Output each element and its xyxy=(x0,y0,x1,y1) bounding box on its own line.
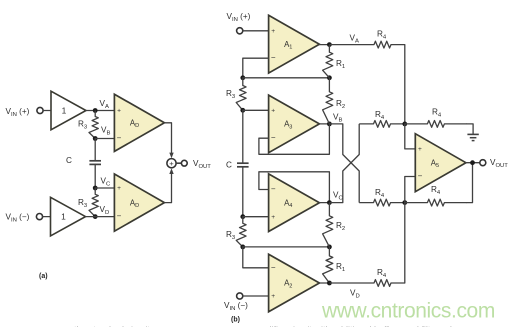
wire crossover upper-right to VC xyxy=(329,124,359,203)
node VC (b) xyxy=(327,200,332,205)
resistor R4 (VD row) xyxy=(329,280,404,287)
wire buffer2 to node VD xyxy=(86,216,96,218)
capacitor C (a) xyxy=(89,160,101,162)
svg-text:−: − xyxy=(117,212,122,221)
resistor R1 (b top) xyxy=(323,45,333,78)
op-amp A3 xyxy=(269,95,320,153)
svg-text:VIN (−): VIN (−) xyxy=(224,301,248,312)
svg-text:C: C xyxy=(66,156,72,165)
wire A1 feedback xyxy=(243,58,269,78)
svg-text:+: + xyxy=(271,108,275,115)
svg-text:R1: R1 xyxy=(336,262,345,273)
op-amp A4 xyxy=(269,174,320,232)
input terminal VIN(-) (b) xyxy=(237,293,243,299)
svg-text:R3: R3 xyxy=(226,230,236,241)
wire A3 feedback loop xyxy=(259,124,330,154)
svg-text:VD: VD xyxy=(350,289,360,300)
svg-text:VC: VC xyxy=(101,177,111,188)
svg-text:www.cntronics.com: www.cntronics.com xyxy=(321,299,495,322)
resistor R3 (b bottom) xyxy=(236,217,246,247)
resistor R2 (b bottom) xyxy=(323,203,333,247)
svg-text:+: + xyxy=(169,159,174,168)
wire VIN(+) to A1 xyxy=(243,30,269,32)
node mid-left (b) xyxy=(240,245,245,250)
wire VC to amp plus xyxy=(95,187,114,189)
op-amp AD top (a) xyxy=(114,94,164,151)
wire capacitor to VC xyxy=(94,164,96,188)
op-amp AD bottom (a) xyxy=(114,174,164,231)
capacitor C (b) xyxy=(237,162,249,164)
svg-text:R4: R4 xyxy=(431,185,441,196)
resistor R4 (A5 plus row) xyxy=(359,121,405,128)
wire AD bottom output to summer xyxy=(164,174,171,203)
resistor R4 (A5 minus row) xyxy=(359,199,405,206)
wire to A3 plus xyxy=(243,109,269,111)
svg-text:−: − xyxy=(117,134,122,143)
buffer U2 gain 1 xyxy=(51,197,86,236)
wire capacitor to A4 plus node xyxy=(242,167,244,217)
svg-text:R2: R2 xyxy=(336,221,345,232)
ground symbol xyxy=(467,133,478,135)
wire A4 output to node VC xyxy=(319,202,329,204)
svg-text:VIN (+): VIN (+) xyxy=(6,107,30,118)
wire VIN(-) to buffer xyxy=(43,216,51,218)
output terminal VOUT (b) xyxy=(480,160,486,166)
wire to ground xyxy=(467,124,473,134)
wire VB to amp minus xyxy=(95,138,114,140)
node VA (b) xyxy=(327,42,332,47)
svg-text:+: + xyxy=(117,108,121,115)
svg-text:(a): (a) xyxy=(39,273,48,280)
svg-text:−: − xyxy=(418,172,423,181)
wire AD top output to summer xyxy=(164,123,171,153)
input terminal VIN(+) (b) xyxy=(237,28,243,34)
svg-text:VB: VB xyxy=(101,126,110,137)
svg-text:+: + xyxy=(271,28,275,35)
wire VD to amp xyxy=(95,216,114,218)
svg-text:R2: R2 xyxy=(336,99,345,110)
svg-text:−: − xyxy=(271,53,276,62)
wire right bus bottom xyxy=(404,203,406,283)
node A3 plus (b) xyxy=(240,108,245,113)
svg-text:R3: R3 xyxy=(78,120,88,131)
node A4 plus (b) xyxy=(240,214,245,219)
node VD (b) xyxy=(327,281,332,286)
wire feedback row A1 xyxy=(243,77,330,79)
node A1 feedback left xyxy=(240,75,245,80)
wire middle row (b) xyxy=(243,246,330,248)
resistor R2 (b top) xyxy=(323,78,333,124)
wire buffer to node VA xyxy=(86,110,114,112)
svg-text:+: + xyxy=(271,293,275,300)
node VA (a) xyxy=(93,108,98,113)
wire VIN(-) to A2 xyxy=(243,295,269,297)
wire VIN(+) to buffer xyxy=(43,110,51,112)
svg-text:VOUT: VOUT xyxy=(490,158,508,169)
node mid-right (b) xyxy=(327,245,332,250)
svg-text:+: + xyxy=(418,146,422,153)
wire to A4 plus xyxy=(243,216,269,218)
svg-text:R3: R3 xyxy=(78,198,88,209)
svg-text:−: − xyxy=(271,263,276,272)
circuit (a) input terminal VIN(+) xyxy=(37,107,43,113)
svg-text:R4: R4 xyxy=(432,108,442,119)
wire A2 feedback loop xyxy=(243,247,269,268)
resistor R4 (A5 feedback) xyxy=(405,199,467,206)
resistor R3 (a bottom) xyxy=(89,188,98,217)
wire left bus to capacitor (b) xyxy=(242,110,244,163)
svg-text:R1: R1 xyxy=(336,59,345,70)
node VB (a) xyxy=(93,136,98,141)
input terminal VIN(-) (a) xyxy=(36,214,42,220)
svg-text:VB: VB xyxy=(333,113,342,124)
svg-text:C: C xyxy=(226,161,232,170)
op-amp A1 xyxy=(269,15,320,73)
node A5 output xyxy=(470,160,475,165)
svg-text:+: + xyxy=(117,185,121,192)
wire A2 output to node VD xyxy=(319,282,329,284)
svg-text:R3: R3 xyxy=(226,89,236,100)
arrow into summer from top xyxy=(169,153,173,159)
svg-text:VA: VA xyxy=(350,34,359,45)
node R1 bottom (b top) xyxy=(327,75,332,80)
node right bus lower xyxy=(402,200,407,205)
wire right bus to A5 plus xyxy=(405,124,416,149)
resistor R3 (b top) xyxy=(236,78,246,111)
svg-text:VC: VC xyxy=(333,191,343,202)
svg-text:VIN (+): VIN (+) xyxy=(227,12,251,23)
svg-text:−: − xyxy=(271,133,276,142)
svg-text:VD: VD xyxy=(100,205,110,216)
wire A3 output to node VB xyxy=(319,123,329,125)
wire summer to VOUT terminal (a) xyxy=(176,162,181,164)
resistor R4 (ground branch) xyxy=(405,121,467,128)
wire VB to capacitor xyxy=(94,139,96,161)
node VD (a) xyxy=(93,214,98,219)
wire A5 feedback up xyxy=(467,163,473,203)
op-amp A5 xyxy=(415,134,466,192)
svg-text:R4: R4 xyxy=(377,30,387,41)
svg-text:+: + xyxy=(271,214,275,221)
summing junction (a) xyxy=(167,159,176,168)
wire crossover VB to lower-right xyxy=(329,124,359,203)
svg-text:R4: R4 xyxy=(377,268,387,279)
arrow into summer from bottom xyxy=(169,168,173,174)
wire right bus to A5 minus xyxy=(405,177,416,203)
svg-text:1: 1 xyxy=(61,211,66,221)
node VC (a) xyxy=(93,186,98,191)
svg-text:R4: R4 xyxy=(375,110,385,121)
svg-text:−: − xyxy=(271,185,276,194)
svg-text:VA: VA xyxy=(100,99,109,110)
output terminal VOUT (a) xyxy=(181,160,187,166)
wire right bus top xyxy=(404,45,406,124)
wire A1 output to node VA xyxy=(319,44,329,46)
svg-text:VOUT: VOUT xyxy=(193,159,211,170)
resistor R4 (VA row) xyxy=(329,41,404,48)
wire A5 output xyxy=(466,162,480,164)
resistor R3 (a top) xyxy=(89,111,98,139)
svg-text:R4: R4 xyxy=(375,188,385,199)
svg-text:VIN (−): VIN (−) xyxy=(6,213,30,224)
op-amp A2 xyxy=(269,254,320,312)
wire A4 feedback loop xyxy=(259,172,330,203)
node VB (b) xyxy=(327,122,332,127)
svg-text:(b): (b) xyxy=(231,317,240,324)
node right bus upper xyxy=(402,122,407,127)
resistor R1 (b bottom) xyxy=(323,247,333,283)
svg-text:1: 1 xyxy=(62,105,67,115)
buffer U1 gain 1 xyxy=(51,91,86,130)
